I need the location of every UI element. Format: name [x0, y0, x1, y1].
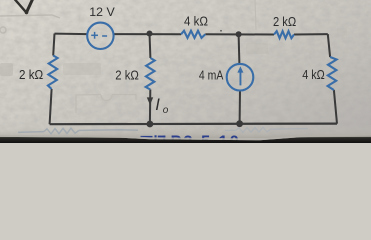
svg-text:4 kΩ: 4 kΩ: [302, 67, 325, 82]
wire bottom: [50, 122, 337, 125]
ghost text smudges: [0, 28, 347, 76]
light page edge above band: [0, 134, 371, 141]
ghost fold line: [255, 0, 256, 30]
svg-text:4 mA: 4 mA: [199, 68, 224, 83]
Io arrowhead: [147, 97, 153, 105]
wire right side bottom: [334, 90, 337, 124]
wire top segment right of 4k: [205, 33, 274, 35]
resistor 2k left zigzag: [48, 56, 58, 90]
wire middle branch upper: [149, 33, 152, 58]
wire top middle segment: [114, 33, 181, 35]
ghost zigzag bottom-left (bleed-through): [18, 128, 138, 134]
voltage source V1 12V circle: [87, 23, 113, 49]
plus sign of source: [91, 32, 98, 39]
wire right side top: [328, 34, 330, 57]
node top right: [236, 31, 242, 37]
ghost line top-left (bleed-through): [0, 15, 60, 33]
bottom page-edge shadow: [0, 124, 371, 138]
caption hangul fragment 2: [155, 135, 166, 141]
svg-text:2 kΩ: 2 kΩ: [19, 67, 44, 82]
resistor 2k middle zigzag: [146, 58, 155, 90]
svg-text:12 V: 12 V: [89, 5, 115, 19]
wire left side top: [53, 34, 54, 56]
wire middle branch lower (Io): [149, 90, 151, 125]
ghost box (bleed-through figure): [76, 95, 136, 114]
svg-text:I: I: [155, 96, 160, 114]
svg-text:4 kΩ: 4 kΩ: [184, 13, 208, 28]
wire current-source branch lower: [239, 90, 241, 123]
current source arrow: [237, 66, 243, 85]
node bottom middle: [147, 121, 154, 128]
node bottom right: [236, 120, 243, 127]
current source I1 4mA circle: [227, 64, 254, 91]
svg-text:2 kΩ: 2 kΩ: [115, 68, 139, 83]
tiny speck on top wire: [220, 30, 222, 32]
wire top left segment: [55, 33, 88, 36]
wire top right segment: [294, 33, 328, 35]
pen checkmark mark: [15, 0, 33, 14]
resistor 2k top-right zigzag: [274, 31, 294, 38]
resistor 4k top zigzag: [181, 31, 205, 38]
caption hangul fragment 1: [141, 136, 153, 138]
svg-text:o: o: [163, 105, 169, 116]
svg-text:2 kΩ: 2 kΩ: [273, 14, 297, 29]
ghost zigzag bottom-right (bleed-through): [225, 127, 308, 132]
resistor 4k right zigzag: [328, 57, 337, 90]
wire left side bottom: [50, 89, 52, 124]
node top middle: [147, 31, 153, 37]
dark page-edge band: [0, 135, 371, 143]
wire current-source branch upper: [238, 34, 241, 64]
paper background: [0, 0, 371, 143]
minus sign of source: [102, 35, 107, 37]
